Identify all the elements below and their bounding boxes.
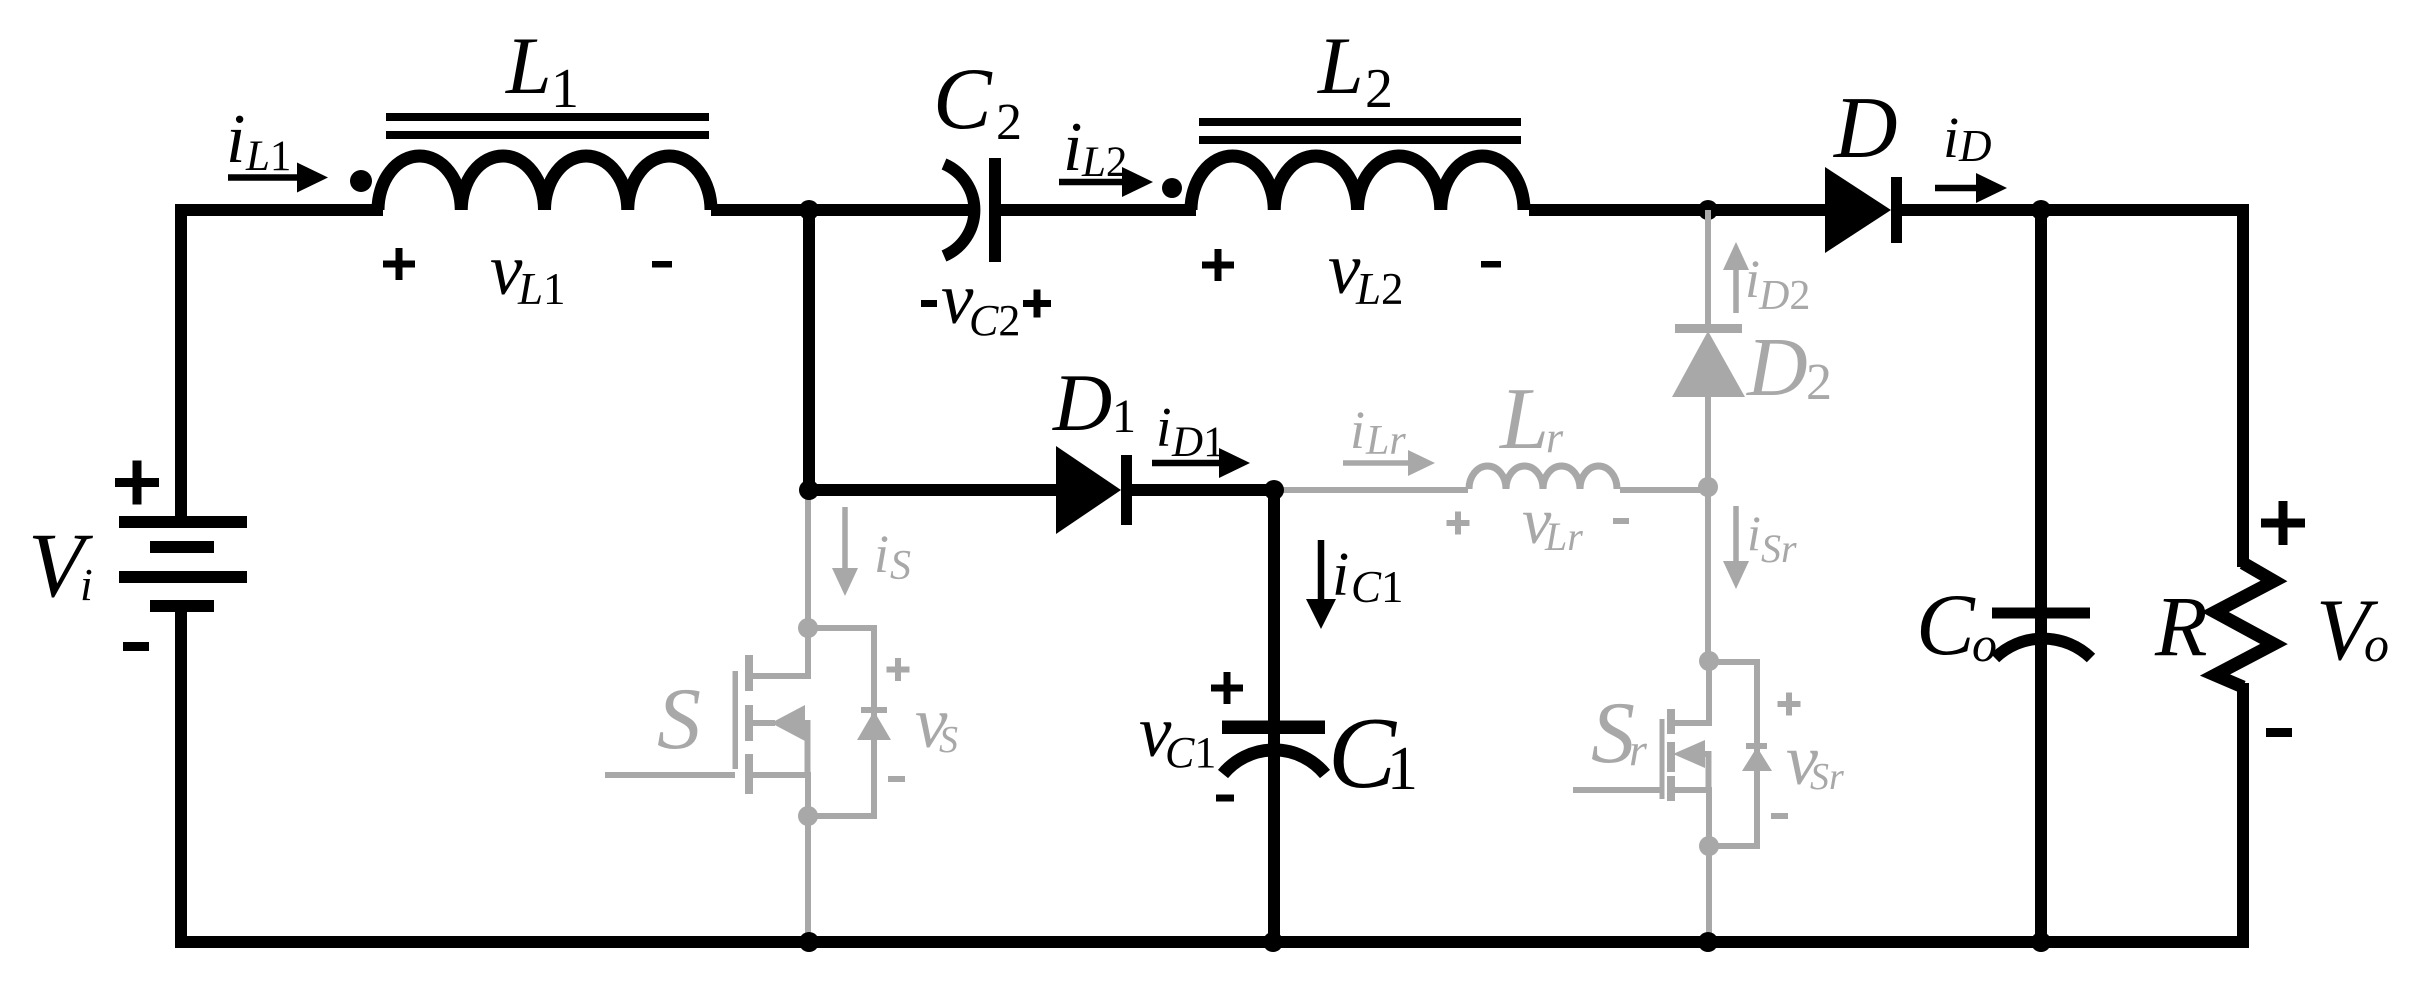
label Vo minus (2266, 728, 2292, 737)
current arrow iLr (1343, 450, 1435, 476)
label D2 (1746, 321, 1832, 414)
node dot bottom S branch (799, 932, 819, 952)
label iSr (1747, 505, 1797, 571)
label vLr minus (1613, 518, 1629, 524)
svg-text:Sr: Sr (1761, 526, 1797, 571)
wire left vertical upper (175, 204, 187, 522)
svg-text:Lr: Lr (1365, 418, 1406, 464)
label D1 (1052, 357, 1136, 448)
wire D1 branch horizontal right (1132, 484, 1274, 496)
inductor L2 core lines (1199, 118, 1521, 144)
current arrow iS (832, 507, 858, 596)
label C1 minus (1216, 795, 1234, 802)
svg-text:1: 1 (1112, 390, 1136, 443)
label C2 (933, 51, 1022, 151)
current arrow iD (1935, 173, 2007, 203)
svg-text:r: r (1546, 413, 1564, 462)
svg-text:2: 2 (1806, 354, 1832, 411)
label vLr (1522, 485, 1583, 559)
capacitor C2 curved plate (944, 164, 974, 256)
inductor L1 core lines (386, 113, 709, 139)
label vS minus (888, 776, 905, 782)
label C1 (1328, 697, 1418, 810)
svg-text:D: D (1958, 121, 1992, 171)
inductor Lr (1469, 466, 1617, 489)
resistor R (2215, 563, 2274, 687)
capacitor Co curved plate (1995, 639, 2091, 658)
svg-text:i: i (874, 524, 889, 584)
svg-text:i: i (80, 559, 93, 610)
wire S to bottom bus (805, 816, 811, 941)
node dot bottom Co branch (2031, 932, 2051, 952)
battery Vi (119, 516, 247, 612)
battery plus sign (115, 461, 159, 505)
svg-text:r: r (1629, 724, 1648, 775)
label iD2 (1745, 249, 1810, 319)
label C1 plus (1211, 672, 1243, 704)
wire left vertical lower (175, 606, 187, 947)
polarity dot L1 (350, 170, 372, 192)
svg-text:o: o (2364, 616, 2389, 672)
label vL2 (1328, 228, 1404, 314)
svg-text:i: i (1332, 541, 1349, 609)
label vL2 plus (1202, 249, 1234, 281)
capacitor C1 flat plate (1222, 721, 1325, 735)
svg-text:2: 2 (996, 94, 1022, 151)
label iD (1943, 105, 1992, 171)
current arrow iSr (1723, 506, 1749, 589)
node dot top D1 branch (799, 200, 819, 220)
svg-text:1: 1 (1387, 735, 1418, 803)
label vSr (1786, 720, 1844, 800)
svg-text:C1: C1 (1351, 562, 1404, 612)
wire Sr drain (1705, 487, 1711, 661)
wire D1 branch vertical (803, 210, 815, 490)
label vL1 minus (652, 261, 672, 268)
node dot top Co branch (2031, 200, 2051, 220)
svg-text:S: S (657, 671, 701, 768)
label Vo (2316, 582, 2389, 679)
label vC1 (1139, 691, 1216, 777)
label L1 (505, 20, 579, 120)
svg-text:i: i (1350, 400, 1365, 460)
wire C1 branch vertical (1268, 490, 1280, 941)
wire bottom bus (175, 936, 2249, 948)
label vC2 (941, 258, 1020, 345)
label vS plus (887, 658, 910, 681)
wire right vertical lower (2237, 683, 2249, 947)
svg-text:o: o (1972, 616, 1997, 672)
label vL2 minus (1481, 261, 1501, 268)
svg-text:2: 2 (1365, 58, 1393, 120)
svg-text:C1: C1 (1165, 728, 1216, 777)
capacitor Co branch wire (2035, 210, 2047, 941)
svg-text:C: C (933, 51, 993, 148)
wire top bus segment 2 (711, 204, 970, 216)
label Vi (28, 514, 94, 616)
svg-text:D: D (1052, 357, 1112, 448)
MOSFET S (605, 618, 891, 826)
wire top bus segment 3 (1001, 204, 1196, 216)
label vLr plus (1447, 512, 1470, 535)
node dot bottom Sr branch (1698, 932, 1718, 952)
diode D2 (1672, 324, 1745, 397)
label Vo plus (2261, 501, 2305, 545)
capacitor C2 straight plate (989, 158, 1001, 262)
wire top bus segment 5 (1897, 204, 2249, 216)
node dot D1 branch corner (799, 480, 819, 500)
label vC2 minus (921, 300, 937, 307)
inductor L1 (378, 156, 711, 210)
svg-text:L2: L2 (1355, 264, 1404, 314)
svg-text:Lr: Lr (1544, 514, 1583, 559)
wire Sr to bottom bus (1706, 846, 1712, 941)
wire Lr branch right (1620, 487, 1708, 493)
svg-text:L: L (505, 20, 552, 111)
svg-text:S: S (939, 719, 958, 761)
label Sr (1591, 685, 1648, 782)
diode D2 branch wire upper (1705, 210, 1711, 325)
label iS (874, 524, 911, 589)
current arrow iD1 (1152, 448, 1250, 478)
svg-text:C: C (1916, 577, 1976, 674)
current arrow iC1 (1306, 540, 1336, 629)
svg-text:i: i (1747, 505, 1761, 561)
wire Lr branch left (1274, 487, 1468, 493)
battery minus sign (123, 642, 149, 651)
label vL1 (490, 229, 566, 314)
capacitor C1 curved plate (1223, 750, 1325, 774)
label iL1 (226, 101, 291, 180)
polarity dot L2 (1162, 178, 1182, 198)
svg-text:i: i (1943, 105, 1959, 170)
svg-text:L1: L1 (245, 133, 291, 180)
svg-text:D2: D2 (1758, 273, 1810, 319)
diode D2 branch wire lower (1705, 397, 1711, 487)
svg-text:Sr: Sr (1810, 756, 1844, 798)
inductor L2 (1191, 156, 1524, 210)
svg-text:1: 1 (551, 58, 579, 120)
MOSFET Sr (1573, 651, 1772, 856)
node dot top D2 branch (1698, 200, 1718, 220)
diode D1 (1056, 446, 1132, 534)
svg-text:C2: C2 (969, 296, 1020, 345)
node dot Lr D2 Sr junction (1698, 477, 1718, 497)
label vSr plus (1778, 693, 1801, 716)
svg-text:D: D (1833, 80, 1898, 177)
MOSFET S drain wire (805, 490, 811, 628)
svg-text:i: i (1063, 109, 1082, 186)
label vL1 plus (383, 248, 415, 280)
svg-text:S: S (890, 543, 911, 589)
label vSr minus (1771, 813, 1788, 819)
current arrow iL1 (228, 163, 328, 193)
svg-text:L: L (1498, 371, 1549, 468)
svg-text:D1: D1 (1171, 419, 1225, 466)
svg-text:i: i (1745, 249, 1760, 309)
current arrow iD2 (1723, 242, 1749, 313)
label vC2 plus (1023, 290, 1051, 318)
current arrow iL2 (1059, 167, 1153, 197)
wire top bus segment 4 (1529, 204, 1830, 216)
svg-text:D: D (1746, 321, 1808, 414)
node dot bottom C1 branch (1263, 932, 1283, 952)
label Lr (1498, 371, 1564, 468)
wire top bus segment 1 (181, 204, 383, 216)
svg-text:L: L (1317, 20, 1364, 111)
svg-text:i: i (1156, 397, 1172, 459)
svg-text:L1: L1 (517, 264, 566, 314)
label iLr (1350, 400, 1406, 464)
label iD1 (1156, 397, 1225, 466)
label iL2 (1063, 109, 1127, 186)
diode D (1825, 167, 1902, 253)
svg-text:i: i (226, 101, 245, 178)
svg-text:L2: L2 (1081, 139, 1127, 186)
node dot D1 output (1264, 480, 1284, 500)
wire right vertical upper (2237, 204, 2249, 567)
capacitor Co flat plate (1992, 608, 2090, 619)
svg-text:R: R (2154, 578, 2208, 674)
label iC1 (1332, 541, 1404, 612)
label vS (915, 682, 958, 763)
wire D1 branch horizontal left (809, 484, 1060, 496)
label L2 (1317, 20, 1393, 120)
label Co (1916, 577, 1997, 674)
